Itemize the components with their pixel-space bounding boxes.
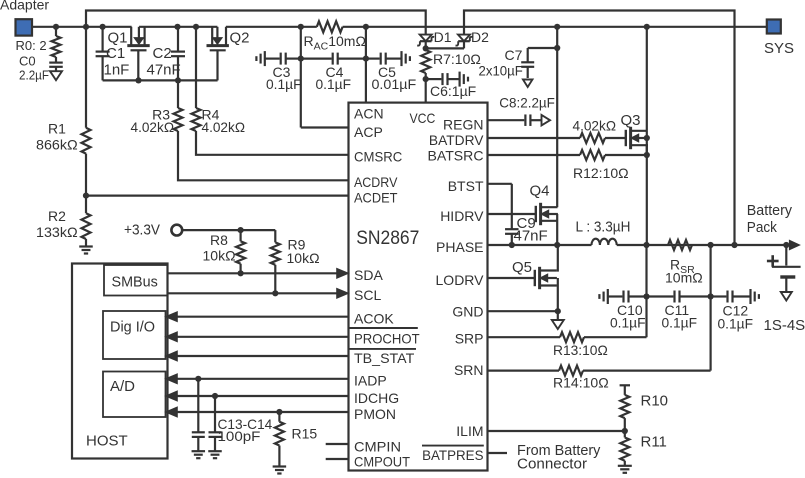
- svg-text:TB_STAT: TB_STAT: [354, 350, 415, 366]
- svg-text:SRN: SRN: [454, 362, 484, 378]
- svg-text:4.02kΩ: 4.02kΩ: [573, 118, 617, 134]
- svg-text:SCL: SCL: [354, 287, 381, 303]
- svg-text:SYS: SYS: [764, 40, 794, 57]
- svg-text:HIDRV: HIDRV: [440, 208, 484, 224]
- svg-text:IADP: IADP: [354, 373, 387, 389]
- svg-text:4.02kΩ: 4.02kΩ: [131, 119, 175, 135]
- svg-text:VCC: VCC: [410, 110, 436, 126]
- svg-text:0.1µF: 0.1µF: [316, 76, 352, 92]
- svg-text:HOST: HOST: [86, 433, 128, 450]
- svg-text:Pack: Pack: [747, 219, 778, 236]
- svg-text:866kΩ: 866kΩ: [36, 137, 78, 153]
- svg-text:REGN: REGN: [443, 117, 483, 133]
- svg-text:10kΩ: 10kΩ: [287, 250, 320, 266]
- svg-text:47nF: 47nF: [514, 228, 548, 245]
- svg-text:CMPOUT: CMPOUT: [354, 454, 410, 470]
- svg-text:R0: 2: R0: 2: [16, 38, 47, 53]
- svg-text:ACDRV: ACDRV: [354, 174, 398, 190]
- svg-text:47nF: 47nF: [147, 62, 181, 79]
- svg-text:0.1µF: 0.1µF: [610, 315, 646, 331]
- svg-text:IDCHG: IDCHG: [354, 390, 399, 406]
- svg-text:Dig I/O: Dig I/O: [110, 319, 155, 336]
- svg-text:L : 3.3µH: L : 3.3µH: [576, 219, 631, 236]
- svg-text:0.1µF: 0.1µF: [662, 315, 698, 331]
- svg-text:100pF: 100pF: [218, 428, 261, 444]
- svg-text:C8:2.2µF: C8:2.2µF: [499, 95, 555, 111]
- svg-text:R2: R2: [48, 208, 66, 224]
- svg-text:1S-4S: 1S-4S: [764, 317, 805, 334]
- svg-text:BATPRES: BATPRES: [422, 447, 483, 463]
- svg-text:C2: C2: [153, 45, 172, 62]
- svg-text:2x10µF: 2x10µF: [479, 63, 523, 79]
- svg-text:D1: D1: [434, 29, 452, 45]
- svg-text:Q3: Q3: [621, 112, 641, 129]
- svg-text:BTST: BTST: [448, 178, 484, 194]
- svg-text:R15: R15: [292, 426, 318, 442]
- svg-text:C6:1µF: C6:1µF: [430, 83, 476, 99]
- svg-text:0.1µF: 0.1µF: [266, 76, 302, 92]
- svg-text:R10: R10: [641, 393, 669, 410]
- svg-text:Battery: Battery: [747, 202, 793, 219]
- svg-text:D2: D2: [471, 29, 489, 45]
- svg-text:Connector: Connector: [517, 457, 587, 473]
- svg-text:PROCHOT: PROCHOT: [354, 331, 420, 347]
- svg-text:133kΩ: 133kΩ: [36, 224, 78, 240]
- svg-text:10kΩ: 10kΩ: [203, 248, 236, 264]
- svg-text:R14:10Ω: R14:10Ω: [553, 375, 609, 391]
- svg-text:Q4: Q4: [530, 183, 550, 200]
- svg-text:4.02kΩ: 4.02kΩ: [202, 119, 246, 135]
- svg-text:R8: R8: [210, 232, 228, 248]
- svg-text:0.01µF: 0.01µF: [372, 76, 417, 92]
- svg-text:R12:10Ω: R12:10Ω: [573, 165, 629, 181]
- svg-text:C7: C7: [505, 47, 523, 63]
- svg-text:BATDRV: BATDRV: [429, 132, 484, 148]
- svg-text:C0: C0: [19, 53, 36, 68]
- svg-text:R7:10Ω: R7:10Ω: [433, 51, 481, 67]
- svg-text:10mΩ: 10mΩ: [665, 270, 703, 286]
- svg-text:Q2: Q2: [230, 30, 250, 47]
- svg-text:SRP: SRP: [455, 331, 484, 347]
- svg-text:1nF: 1nF: [104, 62, 130, 79]
- svg-text:PHASE: PHASE: [436, 239, 483, 255]
- svg-text:SN2867: SN2867: [356, 228, 419, 249]
- svg-text:PMON: PMON: [354, 406, 396, 422]
- svg-text:ACP: ACP: [354, 124, 383, 140]
- svg-text:SMBus: SMBus: [112, 274, 158, 291]
- svg-text:Q5: Q5: [512, 259, 532, 276]
- svg-text:BATSRC: BATSRC: [428, 148, 484, 164]
- svg-text:R1: R1: [48, 121, 66, 137]
- svg-text:2.2µF: 2.2µF: [19, 68, 49, 83]
- svg-text:ACN: ACN: [354, 106, 384, 122]
- svg-text:A/D: A/D: [110, 378, 135, 395]
- svg-text:LODRV: LODRV: [436, 272, 485, 288]
- svg-text:ACDET: ACDET: [354, 190, 398, 206]
- svg-text:C1: C1: [106, 45, 125, 62]
- svg-text:GND: GND: [452, 304, 483, 320]
- svg-text:+3.3V: +3.3V: [124, 222, 160, 239]
- svg-text:R13:10Ω: R13:10Ω: [553, 342, 608, 358]
- svg-text:SDA: SDA: [354, 267, 383, 283]
- svg-text:CMSRC: CMSRC: [354, 149, 402, 165]
- svg-text:0.1µF: 0.1µF: [718, 316, 754, 332]
- svg-text:Adapter: Adapter: [0, 0, 49, 13]
- svg-text:R11: R11: [641, 434, 667, 451]
- svg-text:ACOK: ACOK: [354, 311, 394, 327]
- svg-text:ILIM: ILIM: [456, 423, 483, 439]
- svg-text:CMPIN: CMPIN: [354, 439, 401, 455]
